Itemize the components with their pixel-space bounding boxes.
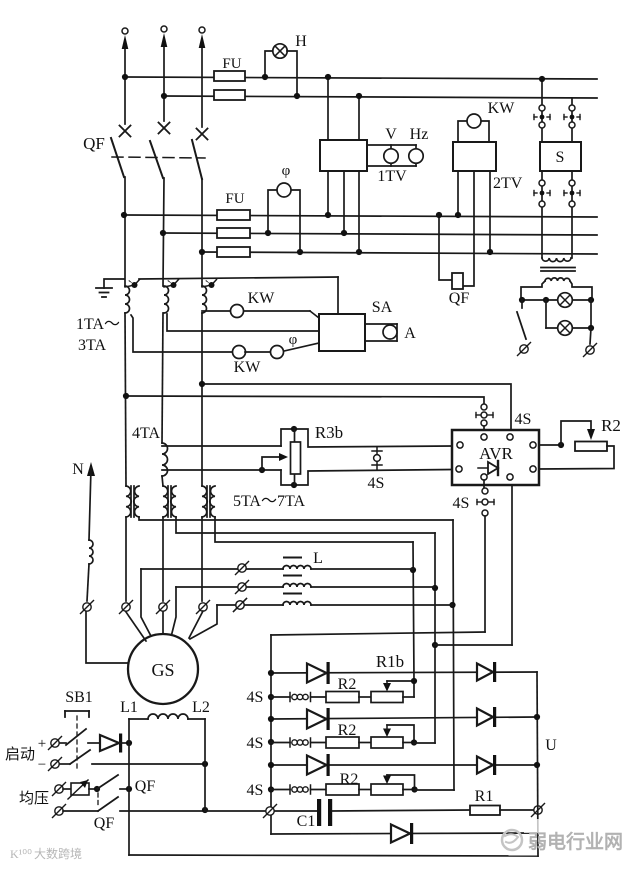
svg-text:1TV: 1TV bbox=[377, 168, 407, 185]
svg-text:QF: QF bbox=[135, 778, 156, 795]
svg-text:+: + bbox=[38, 736, 46, 752]
svg-text:H: H bbox=[295, 33, 307, 50]
svg-text:A: A bbox=[404, 325, 416, 342]
svg-text:R1: R1 bbox=[475, 788, 494, 805]
svg-text:R3b: R3b bbox=[315, 423, 343, 442]
svg-text:4S: 4S bbox=[515, 411, 532, 428]
svg-text:KW: KW bbox=[488, 100, 516, 117]
svg-text:启动: 启动 bbox=[5, 746, 35, 763]
svg-text:4S: 4S bbox=[247, 689, 264, 706]
svg-text:R1b: R1b bbox=[376, 652, 404, 671]
svg-text:4TA: 4TA bbox=[132, 425, 160, 442]
svg-text:L1: L1 bbox=[120, 699, 138, 716]
svg-text:QF: QF bbox=[83, 134, 105, 153]
svg-text:FU: FU bbox=[225, 191, 244, 207]
svg-text:SA: SA bbox=[372, 299, 393, 316]
svg-text:U: U bbox=[545, 737, 557, 754]
svg-text:2TV: 2TV bbox=[493, 175, 523, 192]
svg-text:R2: R2 bbox=[601, 416, 621, 435]
svg-text:1TA〜: 1TA〜 bbox=[76, 316, 120, 333]
svg-text:R2: R2 bbox=[340, 771, 359, 788]
svg-text:L2: L2 bbox=[192, 699, 210, 716]
svg-text:AVR: AVR bbox=[479, 444, 513, 463]
svg-text:Hz: Hz bbox=[410, 126, 429, 143]
svg-text:V: V bbox=[385, 126, 397, 143]
svg-text:KW: KW bbox=[248, 290, 276, 307]
svg-text:φ: φ bbox=[282, 163, 291, 179]
svg-text:L: L bbox=[313, 550, 323, 567]
svg-text:S: S bbox=[556, 149, 565, 166]
svg-text:4S: 4S bbox=[247, 782, 264, 799]
svg-text:QF: QF bbox=[94, 815, 115, 832]
svg-text:QF: QF bbox=[449, 290, 470, 307]
svg-text:4S: 4S bbox=[453, 495, 470, 512]
svg-text:φ: φ bbox=[289, 332, 298, 348]
svg-text:GS: GS bbox=[151, 660, 174, 680]
svg-text:均压: 均压 bbox=[19, 790, 49, 807]
svg-text:−: − bbox=[38, 757, 46, 773]
svg-text:FU: FU bbox=[222, 56, 241, 72]
svg-text:KW: KW bbox=[234, 359, 262, 376]
svg-text:弱电行业网: 弱电行业网 bbox=[528, 830, 622, 853]
svg-text:大数跨境: 大数跨境 bbox=[34, 846, 82, 861]
svg-text:4S: 4S bbox=[247, 735, 264, 752]
svg-text:C1: C1 bbox=[297, 813, 316, 830]
svg-text:R2: R2 bbox=[338, 676, 357, 693]
svg-text:4S: 4S bbox=[368, 475, 385, 492]
svg-text:N: N bbox=[72, 461, 84, 478]
svg-text:3TA: 3TA bbox=[78, 337, 106, 354]
svg-text:R2: R2 bbox=[338, 722, 357, 739]
svg-text:K¹⁰⁰: K¹⁰⁰ bbox=[10, 847, 32, 861]
svg-text:5TA〜7TA: 5TA〜7TA bbox=[233, 493, 306, 510]
svg-text:SB1: SB1 bbox=[65, 689, 93, 706]
